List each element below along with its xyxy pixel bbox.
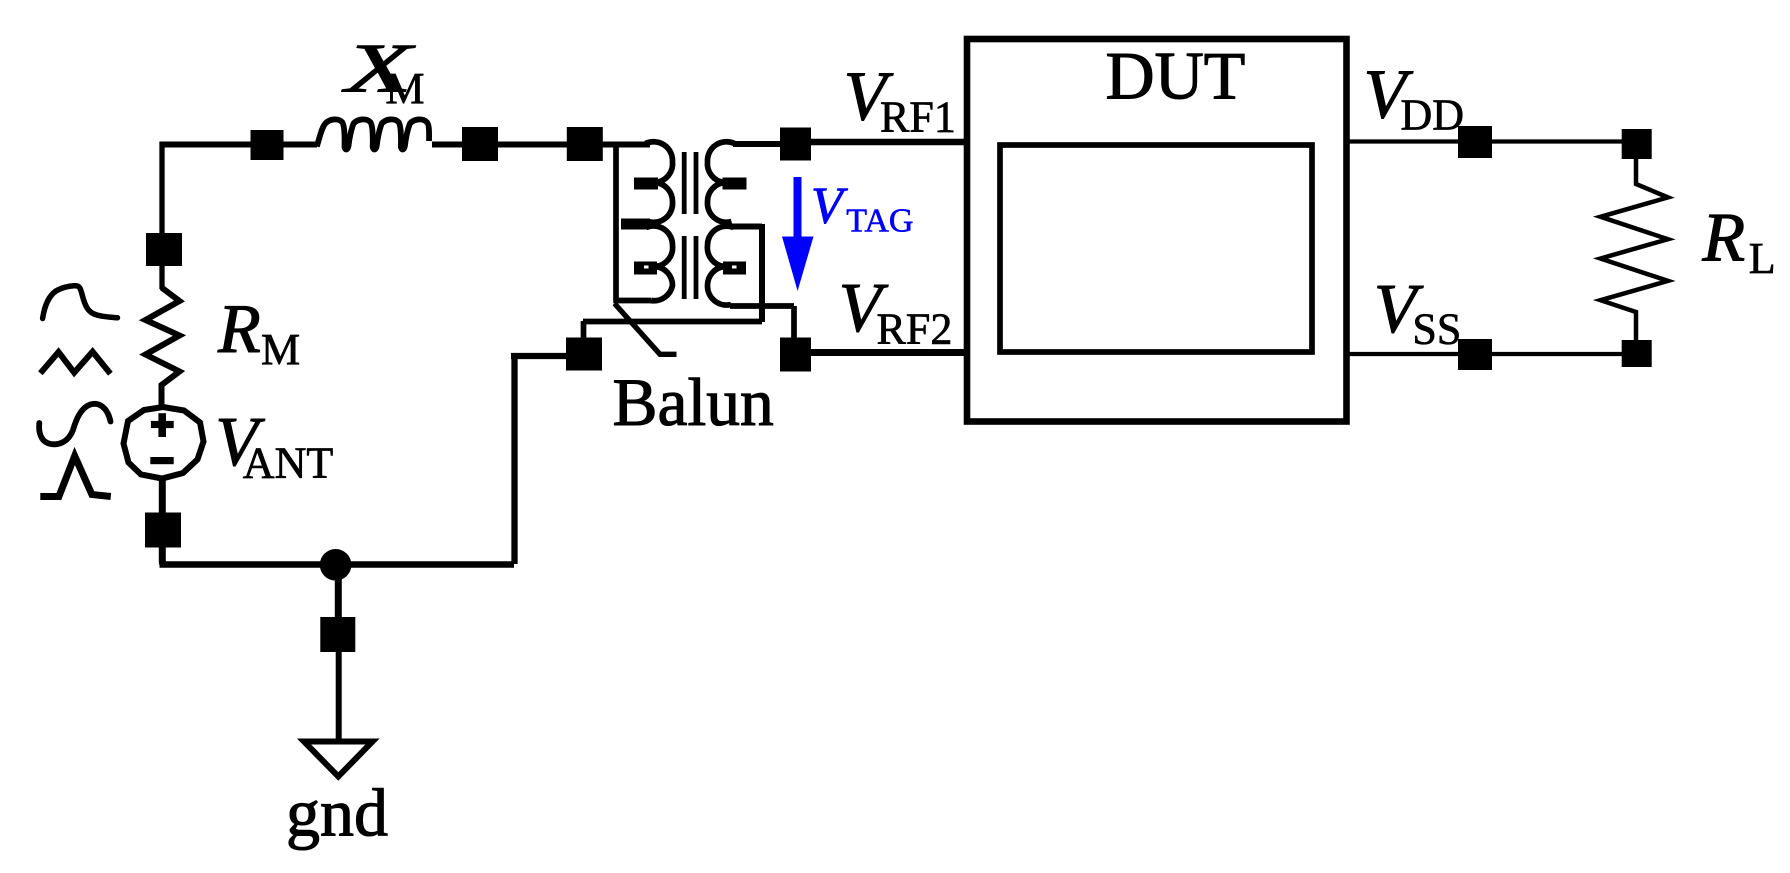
balun lower output wire <box>730 306 794 339</box>
svg-text:gnd: gnd <box>286 775 388 851</box>
pad VSS left <box>1458 339 1492 370</box>
wire inductor to balun <box>432 142 650 148</box>
balun left winding junction bar <box>621 219 650 230</box>
VTAG arrow <box>782 177 814 291</box>
label RL <box>1701 199 1775 283</box>
balun output pad VRF2 <box>780 338 811 372</box>
pad on top rail right of XM <box>462 127 498 161</box>
svg-text:SS: SS <box>1412 305 1461 354</box>
label gnd <box>286 775 388 851</box>
balun core lines <box>684 152 696 299</box>
wire left vertical <box>159 142 164 290</box>
ground <box>304 742 373 777</box>
balun bottom rail <box>583 321 762 339</box>
balun right winding lower <box>707 226 733 305</box>
label RM <box>217 291 300 374</box>
balun left winding upper <box>646 142 673 223</box>
antenna squiggle 1 <box>43 286 118 319</box>
svg-text:RF2: RF2 <box>877 305 953 354</box>
svg-text:Balun: Balun <box>613 365 774 440</box>
inductor XM <box>317 119 429 149</box>
resistor RM <box>146 288 180 407</box>
pad VSS corner <box>1622 340 1652 367</box>
pad VDD left <box>1458 126 1492 158</box>
wire bottom rail to balun riser <box>511 356 567 564</box>
antenna squiggle 3 <box>39 404 110 444</box>
svg-text:DD: DD <box>1401 91 1465 140</box>
svg-text:TAG: TAG <box>846 203 913 240</box>
balun left winding lower <box>646 226 673 301</box>
balun left winding lower tap <box>634 262 657 275</box>
antenna squiggle 2 <box>40 352 110 374</box>
balun primary-side pad top <box>567 127 603 161</box>
wire balun to VRF1 pad <box>733 141 785 147</box>
antenna squiggle 4 <box>40 456 111 497</box>
svg-text:ANT: ANT <box>243 439 334 488</box>
DUT inner box <box>1000 145 1312 352</box>
wire source pad to bottom rail <box>159 547 166 562</box>
wire VDD <box>1346 139 1636 143</box>
balun output pad VRF1 <box>780 128 811 161</box>
svg-text:L: L <box>1749 234 1776 283</box>
wire VSS <box>1346 352 1636 356</box>
wire junction to ground pad <box>335 565 342 625</box>
balun right winding upper tap <box>723 178 747 190</box>
pad below source <box>145 513 181 548</box>
svg-text:M: M <box>261 325 300 374</box>
balun ground-side pad bottom <box>566 338 602 371</box>
pad VDD corner <box>1622 129 1652 159</box>
wire below source <box>159 478 166 513</box>
svg-text:DUT: DUT <box>1106 38 1246 114</box>
balun left winding upper tap <box>634 178 658 190</box>
wire top rail left <box>162 142 317 148</box>
balun left return wire <box>613 144 651 301</box>
wire VRF1 <box>795 139 967 146</box>
pad above ground <box>320 617 355 652</box>
balun right winding lower tap <box>723 262 746 275</box>
label Balun <box>613 365 774 440</box>
label VSS <box>1374 271 1461 354</box>
balun right winding upper <box>707 142 734 222</box>
label VDD <box>1364 56 1464 139</box>
svg-text:RF1: RF1 <box>880 93 956 142</box>
junction node <box>320 549 352 581</box>
label VRF2 <box>839 270 953 354</box>
svg-text:V: V <box>811 177 848 234</box>
pad on top rail left of XM <box>251 130 284 160</box>
svg-text:R: R <box>1701 199 1745 276</box>
wire VRF2 <box>795 349 967 356</box>
pad above RM <box>146 233 182 266</box>
wire pad to ground <box>336 650 342 739</box>
resistor RL <box>1601 158 1669 341</box>
balun secondary centre tap wire <box>731 224 762 322</box>
svg-text:M: M <box>385 64 424 113</box>
balun label pointer <box>615 304 677 355</box>
label DUT <box>1106 38 1246 114</box>
voltage source VANT <box>124 407 204 479</box>
label XM <box>341 30 425 114</box>
label VRF1 <box>844 59 956 142</box>
label VTAG <box>811 177 913 239</box>
wire bottom rail <box>160 560 515 565</box>
svg-text:R: R <box>217 291 261 368</box>
DUT box <box>967 39 1347 422</box>
label VANT <box>215 404 333 487</box>
